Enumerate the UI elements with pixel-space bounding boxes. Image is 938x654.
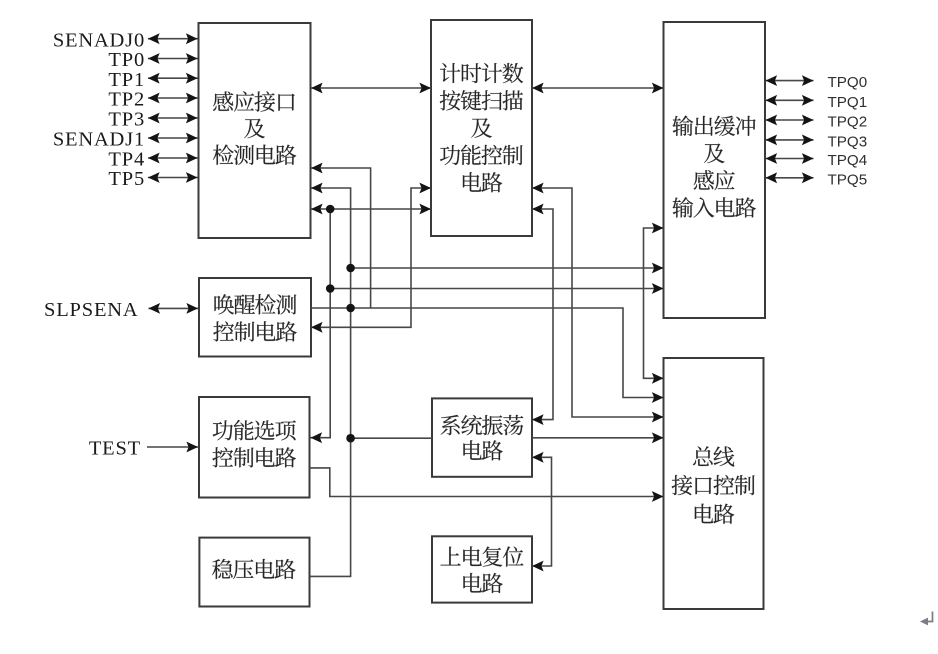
port SENADJ0 with bidirectional arrow <box>53 29 198 51</box>
port TPQ0 with bidirectional arrow <box>766 74 868 91</box>
svg-text:TP2: TP2 <box>108 89 145 111</box>
port TEST with input arrow <box>89 438 198 460</box>
port TPQ3 with bidirectional arrow <box>766 134 868 151</box>
svg-text:SENADJ0: SENADJ0 <box>53 29 145 51</box>
port TPQ4 with bidirectional arrow <box>766 152 868 169</box>
wire V2-branch to G <box>351 437 432 439</box>
port TP3 with bidirectional arrow <box>108 109 197 131</box>
svg-text:TPQ3: TPQ3 <box>828 134 868 151</box>
junction row2 tap on net V1 <box>326 284 335 293</box>
U2 block 计时计数按键扫描及功能控制电路 (timer/counter key-scan & function control) <box>431 20 532 236</box>
paragraph return mark <box>920 612 933 626</box>
wire A-B bidirectional bus <box>311 83 431 94</box>
U1 block 感应接口及检测电路 (sense interface & detect) <box>199 23 311 238</box>
wire B to I (right side) <box>532 183 664 423</box>
port TP1 with bidirectional arrow <box>108 69 197 91</box>
port SENADJ1 with bidirectional arrow <box>53 129 198 151</box>
wire clock to G and H <box>532 452 552 572</box>
svg-text:TP1: TP1 <box>108 69 145 91</box>
wire B to G <box>532 204 553 425</box>
svg-text:TPQ0: TPQ0 <box>828 74 868 91</box>
svg-text:TPQ5: TPQ5 <box>828 171 868 188</box>
wire A-B lower bus with branch V1 <box>311 204 432 444</box>
U6 block 稳压电路 (voltage regulator) <box>199 538 309 607</box>
port TP0 with bidirectional arrow <box>108 49 197 71</box>
svg-text:TEST: TEST <box>89 438 141 460</box>
U5 block 功能选项控制电路 (function option control) <box>199 397 310 498</box>
wire row2 V1-branch to C <box>330 283 663 294</box>
port TPQ2 with bidirectional arrow <box>766 114 868 131</box>
wire regulator net V2: U6 to A/C/D-row/G <box>310 183 351 577</box>
wire row1 V2-branch to C <box>351 263 664 274</box>
wire E to I <box>310 468 664 502</box>
U3 block 输出缓冲及感应输入电路 (output buffer & sense input) <box>664 22 766 318</box>
port TP2 with bidirectional arrow <box>108 89 197 111</box>
svg-text:SENADJ1: SENADJ1 <box>53 129 145 151</box>
port TPQ1 with bidirectional arrow <box>766 94 868 111</box>
junction row1 tap on net V2 <box>346 264 355 273</box>
U4 block 唤醒检测控制电路 (wake detect control) <box>199 278 311 357</box>
svg-text:TPQ4: TPQ4 <box>828 152 868 169</box>
wire B to D <box>311 183 431 333</box>
wire row3 D to I <box>311 308 664 403</box>
svg-text:TPQ1: TPQ1 <box>828 94 868 111</box>
port SLPSENA with bidirectional arrow <box>44 299 198 321</box>
U7 block 系统振荡电路 (system oscillator) <box>432 398 532 476</box>
svg-text:TP3: TP3 <box>108 109 145 131</box>
wire B-C bidirectional bus <box>532 83 664 94</box>
U9 block 总线接口控制电路 (bus interface control) <box>664 358 764 609</box>
svg-text:TP5: TP5 <box>108 168 145 190</box>
U8 block 上电复位电路 (power-on reset) <box>432 536 532 602</box>
port TPQ5 with bidirectional arrow <box>766 171 868 188</box>
port TP4 with bidirectional arrow <box>108 149 197 171</box>
junction node V1 tap on A-B lower bus <box>326 205 335 214</box>
svg-text:TP0: TP0 <box>108 49 145 71</box>
wire C to I (U-shape) <box>644 223 664 384</box>
port TP5 with bidirectional arrow <box>108 168 197 190</box>
junction row3 (D output) tap on net V2 <box>346 304 355 313</box>
wire G to I <box>532 432 664 443</box>
svg-text:SLPSENA: SLPSENA <box>44 299 138 321</box>
wire into A (from node V3) <box>311 163 371 308</box>
svg-text:TPQ2: TPQ2 <box>828 114 868 131</box>
junction G-branch tap on net V2 <box>346 434 355 443</box>
